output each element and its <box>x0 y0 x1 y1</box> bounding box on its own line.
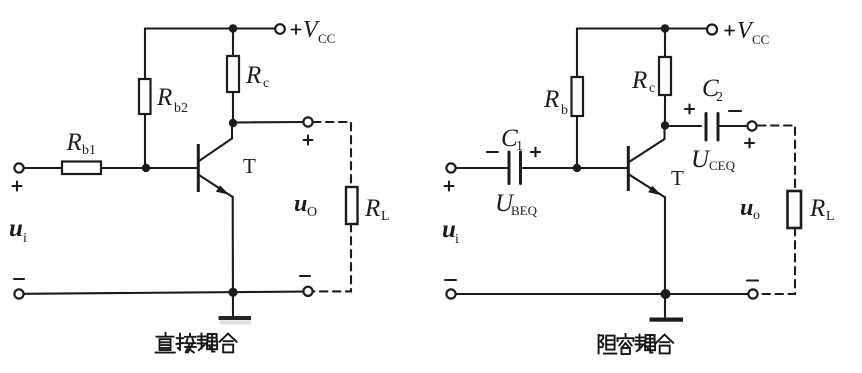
label uo left <box>294 191 317 220</box>
wire input to Rb1 <box>24 167 62 169</box>
wire junction up to Rb2 <box>144 114 146 168</box>
node top rail junction <box>229 24 237 32</box>
wire top rail to Rc right <box>664 29 666 58</box>
wire Rc to collector node right <box>664 95 666 126</box>
char 接 <box>177 334 196 353</box>
resistor Rc (right) <box>659 57 671 95</box>
svg-text:u: u <box>442 216 456 243</box>
label - bottom-left right circuit <box>445 279 456 281</box>
dashed wire output top to RL <box>313 122 351 187</box>
transistor T (left) emitter arrow <box>216 185 229 195</box>
label UBEQ <box>495 190 538 218</box>
char 合 (2) <box>656 335 673 354</box>
char 直 <box>156 333 175 353</box>
label +Vcc left <box>292 17 336 46</box>
terminal bottom output left circuit <box>303 287 312 296</box>
label Rb2 <box>156 84 188 116</box>
wire Rc to collector node <box>232 92 234 123</box>
char 阻 <box>599 335 617 354</box>
label + right of C1 <box>531 148 540 157</box>
svg-text:BEQ: BEQ <box>511 203 538 218</box>
label + at input <box>13 182 22 191</box>
wire C2 to output terminal right <box>720 125 747 127</box>
label Rc left <box>245 62 269 91</box>
label uo right <box>740 195 760 223</box>
label + left of C2 <box>685 105 694 114</box>
ground (left, blurred bar) <box>219 316 252 320</box>
svg-text:O: O <box>307 205 317 220</box>
svg-text:U: U <box>691 146 711 173</box>
bottom rail right circuit <box>456 293 748 295</box>
svg-text:L: L <box>381 209 390 224</box>
label - at bottom-left <box>14 278 24 280</box>
label RL left <box>364 195 390 224</box>
label ui right <box>442 216 459 247</box>
terminal output top right circuit <box>747 121 756 130</box>
caption 阻容耦合 <box>599 334 674 354</box>
svg-text:R: R <box>809 195 825 222</box>
wire input to C1 <box>456 167 507 169</box>
node collector left <box>229 119 237 127</box>
transistor T (right) base bar <box>627 146 630 191</box>
label Rc right <box>631 67 655 96</box>
svg-text:b: b <box>561 103 568 118</box>
svg-text:c: c <box>649 81 655 96</box>
svg-text:u: u <box>9 215 23 242</box>
wire emitter down right <box>664 197 666 317</box>
wire Rb1 to base <box>101 167 197 169</box>
svg-text:R: R <box>631 67 647 94</box>
caption 直接耦合 <box>156 333 237 353</box>
resistor Rb1 <box>62 162 101 175</box>
node top rail junction right <box>661 24 669 32</box>
transistor T (right) emitter arrow <box>648 186 661 196</box>
label T right <box>671 166 684 190</box>
resistor RL (right) <box>788 191 802 228</box>
svg-text:R: R <box>364 195 380 222</box>
svg-text:L: L <box>826 209 835 224</box>
label +Vcc right <box>725 18 769 47</box>
terminal bottom output right circuit <box>748 289 757 298</box>
wire collector node to C2 <box>665 125 701 127</box>
terminal input right circuit <box>446 163 455 172</box>
char 耦 (2) <box>636 335 656 353</box>
svg-text:b1: b1 <box>82 143 96 158</box>
label + at output <box>304 136 313 145</box>
dashed wire RL bottom to terminal <box>758 228 795 294</box>
transistor T (left) base bar <box>197 144 200 192</box>
char 耦 <box>198 334 218 352</box>
svg-text:b2: b2 <box>174 101 188 116</box>
node base junction right <box>573 164 581 172</box>
svg-text:R: R <box>66 129 82 156</box>
label RL right <box>809 195 835 224</box>
transistor T (left) emitter stroke <box>199 175 232 197</box>
label Rb <box>543 86 568 118</box>
svg-text:T: T <box>671 166 684 190</box>
svg-text:R: R <box>245 62 261 89</box>
terminal input left (top-left) <box>14 163 23 172</box>
dashed wire right output to RL <box>758 126 795 192</box>
label UCEQ <box>691 146 736 173</box>
label - left of C1 <box>487 151 498 153</box>
transistor T (left) collector stroke <box>199 123 232 161</box>
terminal bottom-left <box>14 289 23 298</box>
svg-text:o: o <box>753 208 760 223</box>
svg-text:T: T <box>243 154 256 178</box>
resistor RL (left) <box>346 187 358 224</box>
ground (right) <box>650 318 684 322</box>
wire Rb2 top to top rail <box>145 29 275 80</box>
dashed wire RL to bottom terminal <box>313 224 351 291</box>
label ui left <box>9 215 27 246</box>
svg-text:u: u <box>294 191 307 217</box>
svg-text:R: R <box>543 86 559 113</box>
node emitter-bottom junction right <box>661 289 671 299</box>
capacitor C1 <box>509 152 521 184</box>
char 容 <box>618 334 634 354</box>
wire junction up to Rb <box>576 116 578 168</box>
label Rb1 <box>66 129 97 158</box>
svg-text:i: i <box>455 232 459 247</box>
svg-text:CEQ: CEQ <box>709 158 736 173</box>
svg-text:R: R <box>156 84 172 111</box>
svg-text:c: c <box>263 76 269 91</box>
char 合 <box>220 334 237 353</box>
svg-text:u: u <box>740 195 753 221</box>
svg-text:CC: CC <box>752 32 769 47</box>
terminal bottom-left right circuit <box>446 289 455 298</box>
resistor Rb <box>572 77 584 116</box>
capacitor C2 <box>706 114 718 141</box>
terminal +Vcc left <box>275 24 285 34</box>
terminal output top left circuit <box>303 117 312 126</box>
label + at right input <box>445 182 454 191</box>
svg-text:2: 2 <box>716 90 723 105</box>
label C1 <box>501 125 523 154</box>
wire collector node to output terminal <box>233 121 303 124</box>
label - right of C2 <box>729 110 741 112</box>
transistor T (right) emitter stroke <box>629 175 665 198</box>
resistor Rc (left) <box>227 56 239 92</box>
node collector right <box>661 121 669 129</box>
wire C1 to base <box>522 167 627 169</box>
wire top rail to Rc <box>232 29 234 57</box>
resistor Rb2 <box>139 79 151 114</box>
bottom rail left circuit <box>24 292 303 294</box>
label - at bottom output <box>300 275 310 277</box>
label + below right output <box>745 139 754 148</box>
terminal +Vcc right <box>707 25 717 35</box>
svg-text:CC: CC <box>318 31 335 46</box>
wire Rb to top rail right <box>577 29 707 78</box>
node emitter-bottom junction <box>228 288 237 297</box>
label C2 <box>702 75 723 105</box>
svg-text:i: i <box>23 231 27 246</box>
node base-left junction <box>142 164 150 172</box>
wire emitter down <box>232 197 234 317</box>
transistor T (right) collector stroke <box>629 126 665 162</box>
label T left <box>243 154 256 178</box>
label - above right bottom output <box>747 279 758 281</box>
svg-text:1: 1 <box>516 139 523 154</box>
